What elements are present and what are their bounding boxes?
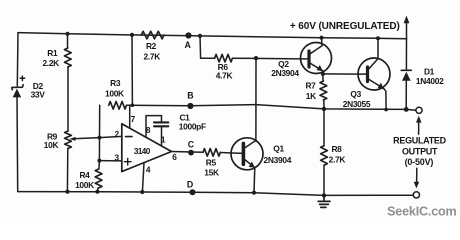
wire D1 top lead from rail corner	[405, 39, 407, 70]
svg-text:R8: R8	[331, 144, 342, 154]
+60V supply arrow	[406, 22, 408, 39]
transistor Q2 base lead	[301, 58, 309, 60]
transistor Q3 base bar	[366, 67, 369, 82]
junction R9 ground	[65, 190, 69, 194]
resistor R2 2.7K	[141, 31, 164, 39]
wire op-amp pin 4 to ground rail	[142, 163, 144, 192]
wire left rail (top section)	[16, 33, 19, 86]
wire A branch to R6	[201, 57, 215, 59]
svg-text:2N3904: 2N3904	[264, 155, 292, 165]
wire R3 left lead / R4 column	[98, 105, 101, 169]
junction D1 bus	[404, 107, 409, 112]
svg-text:OUTPUT: OUTPUT	[402, 146, 438, 156]
svg-text:1K: 1K	[306, 91, 316, 101]
potentiometer R9 wiper arrow	[69, 137, 75, 141]
diode D1 1N4002 triangle	[402, 72, 411, 81]
svg-text:2N3904: 2N3904	[271, 68, 299, 78]
resistor R7 1K	[320, 81, 327, 100]
wire rail to node-B column	[131, 35, 133, 105]
diode D1 cathode bar	[401, 69, 411, 71]
wire R9 bottom to ground rail	[66, 149, 68, 192]
junction R6-Q1 collector	[254, 56, 258, 60]
wire Q2 emitter to R7	[322, 71, 324, 81]
transistor Q2 2N3904	[301, 43, 332, 74]
wire R5 to Q1 base	[220, 152, 243, 155]
resistor R9 10K potentiometer	[65, 131, 72, 149]
svg-text:2: 2	[114, 129, 119, 139]
wire Q2 collector	[321, 38, 324, 46]
wire bottom ground rail	[18, 192, 413, 196]
wire R1-R9 column	[67, 67, 69, 131]
transistor Q2 base bar	[307, 51, 310, 67]
svg-text:4: 4	[146, 165, 151, 175]
junction Q3 emitter bus	[384, 108, 388, 112]
svg-text:2.7K: 2.7K	[329, 155, 346, 165]
ground	[318, 195, 330, 207]
svg-text:Q3: Q3	[350, 89, 361, 99]
label D2 plus sign	[20, 76, 26, 82]
svg-text:B: B	[187, 91, 193, 101]
zener diode D2 33V triangle	[13, 89, 22, 98]
node A dot	[185, 32, 191, 38]
svg-text:R1: R1	[47, 48, 58, 58]
capacitor C1 pin1 leg	[161, 127, 163, 146]
junction A branch	[198, 34, 202, 38]
op-amp U1 3140 triangle	[122, 124, 172, 172]
wire Q3 base	[323, 73, 359, 75]
svg-text:SeekIC.com: SeekIC.com	[387, 205, 456, 219]
wire top +60V rail	[18, 33, 407, 39]
svg-text:REGULATED: REGULATED	[393, 136, 446, 146]
transistor Q3 emitter arrowhead	[378, 83, 384, 89]
transistor Q1 emitter diagonal	[245, 160, 255, 168]
wire R8 to ground rail	[323, 165, 325, 195]
svg-text:15K: 15K	[204, 167, 219, 177]
svg-text:1000pF: 1000pF	[179, 122, 206, 132]
svg-text:4.7K: 4.7K	[216, 70, 233, 80]
op-amp plus input sign	[124, 158, 131, 165]
svg-text:33V: 33V	[31, 89, 46, 99]
svg-text:R5: R5	[206, 158, 217, 168]
junction R4 ground	[95, 190, 99, 194]
wire R9 wiper to pin 2	[74, 136, 122, 138]
wire node B / output bus	[127, 105, 416, 111]
wire output bus to R8	[323, 109, 325, 146]
wire left rail (bottom section)	[16, 97, 19, 191]
svg-text:R3: R3	[110, 78, 121, 88]
transistor Q1 base bar	[242, 143, 246, 164]
svg-text:(0-50V): (0-50V)	[405, 157, 434, 167]
transistor Q2 emitter arrowhead	[317, 65, 323, 71]
junction R7-R8 bus	[322, 107, 326, 111]
zener diode D2 cathode bar	[12, 85, 23, 90]
svg-text:6: 6	[172, 152, 177, 162]
output terminal - (open circle)	[413, 192, 419, 198]
wire A-node branch down	[199, 36, 202, 58]
transistor Q3 collector diagonal	[368, 59, 378, 70]
svg-text:10K: 10K	[44, 140, 59, 150]
capacitor C1 1000pF bracket pin8 leg	[146, 116, 162, 138]
junction rail-R2 left	[130, 33, 134, 37]
output terminal + (open circle)	[416, 107, 422, 113]
junction wiper-pin2	[98, 136, 102, 140]
svg-text:C: C	[188, 139, 195, 149]
svg-text:D: D	[187, 180, 193, 190]
junction pin4 ground	[140, 190, 144, 194]
resistor R8 2.7K	[321, 146, 328, 166]
transistor Q2 emitter diagonal	[310, 63, 323, 71]
transistor Q1 collector diagonal	[245, 140, 256, 148]
svg-text:7: 7	[131, 114, 136, 124]
resistor R4 100K	[95, 169, 102, 188]
junction B column	[131, 103, 135, 107]
svg-text:1N4002: 1N4002	[416, 76, 444, 86]
wire D1 bottom lead	[405, 81, 407, 110]
svg-text:R7: R7	[305, 81, 316, 91]
transistor Q3 emitter diagonal	[368, 79, 384, 89]
junction Q2 collector rail	[319, 36, 323, 40]
junction Q3 collector rail	[376, 36, 380, 40]
svg-text:D1: D1	[424, 67, 435, 77]
svg-text:R4: R4	[79, 170, 90, 180]
resistor R5 15K	[203, 149, 220, 157]
transistor Q1 2N3904	[231, 138, 263, 170]
capacitor C1 plates	[154, 122, 168, 126]
wire R6 to Q2 base	[233, 57, 301, 60]
junction R1 top	[65, 32, 69, 36]
output lower arrow pointing down	[416, 168, 418, 183]
svg-text:+ 60V (UNREGULATED): + 60V (UNREGULATED)	[290, 21, 400, 32]
wire Q3 emitter down to output bus	[384, 89, 386, 110]
junction R8 ground	[322, 193, 326, 197]
output upper arrow pointing up	[418, 120, 420, 134]
transistor Q2 collector diagonal	[310, 46, 322, 54]
svg-text:2.7K: 2.7K	[144, 51, 161, 61]
resistor R1 2.2K	[64, 48, 71, 67]
node C dot	[188, 150, 194, 156]
wire Q1 collector column	[255, 58, 257, 140]
wire R4 bottom lead	[96, 188, 99, 192]
junction Q3 base tap	[321, 72, 325, 76]
wire op-amp output to R5	[172, 151, 204, 154]
transistor Q3 base lead	[359, 73, 368, 75]
svg-text:100K: 100K	[75, 180, 94, 190]
wire R7 to output bus	[323, 100, 325, 109]
transistor Q3 2N3055	[358, 58, 390, 90]
op-amp minus input sign	[126, 136, 132, 138]
resistor R3 100K	[109, 102, 127, 110]
svg-text:100K: 100K	[105, 89, 124, 99]
svg-text:3140: 3140	[134, 147, 151, 156]
svg-text:8: 8	[146, 125, 151, 135]
svg-text:2N3055: 2N3055	[343, 99, 371, 109]
node B dot	[187, 103, 193, 109]
svg-text:R2: R2	[146, 41, 157, 51]
svg-text:2.2K: 2.2K	[42, 58, 59, 68]
svg-text:A: A	[185, 40, 192, 50]
wire Q1 emitter to ground rail	[253, 168, 256, 193]
junction pin3-R4	[97, 159, 101, 163]
node D dot	[190, 189, 196, 195]
resistor R6 4.7K	[215, 54, 233, 62]
wire pin 3	[99, 160, 121, 162]
junction Q1 emitter ground	[252, 191, 256, 195]
transistor Q1 emitter arrowhead	[249, 162, 255, 168]
wire R1 top lead	[67, 34, 69, 48]
svg-text:1: 1	[161, 134, 166, 144]
wire op-amp pin 7 stub	[129, 105, 131, 128]
svg-text:3: 3	[114, 152, 119, 162]
wire Q3 collector	[377, 38, 379, 58]
svg-text:Q1: Q1	[273, 143, 284, 153]
